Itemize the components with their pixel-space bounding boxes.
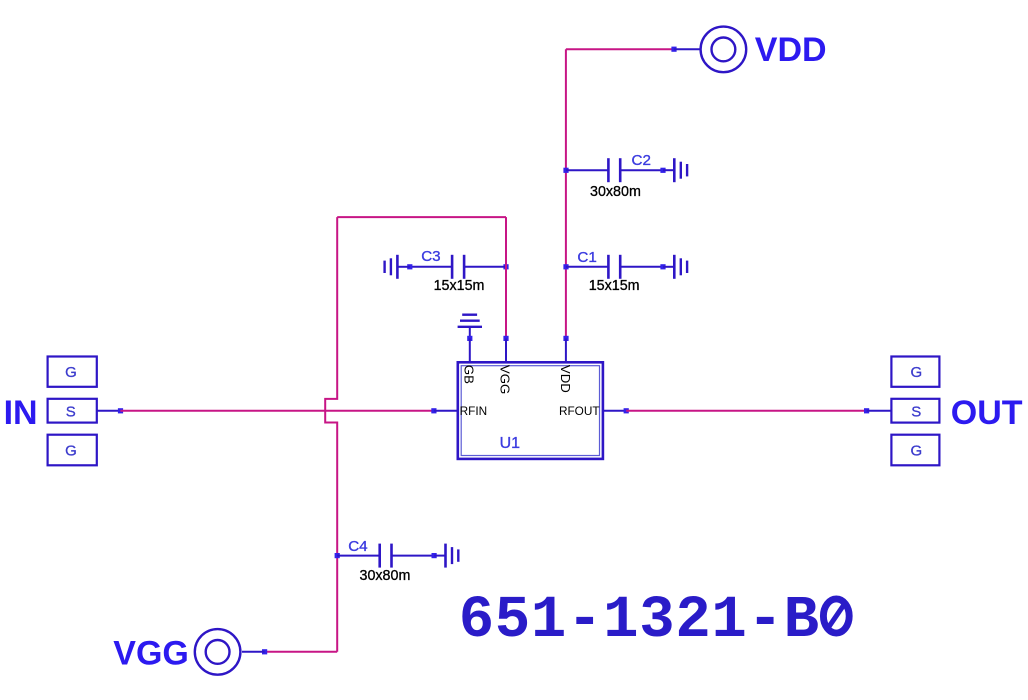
svg-text:C1: C1 xyxy=(577,249,596,266)
amplifier U1 box inner xyxy=(461,366,599,456)
node IN junction xyxy=(118,408,123,413)
C2 ground bar tall xyxy=(673,158,676,182)
C4 ground bar mid xyxy=(451,547,453,564)
node OUT junction xyxy=(864,408,869,413)
svg-text:S: S xyxy=(66,403,76,420)
wire C1 right xyxy=(620,266,663,268)
node C4 right junction xyxy=(432,553,437,558)
port VDD symbol xyxy=(701,27,747,73)
svg-text:RFIN: RFIN xyxy=(460,404,488,418)
C1 ground bar mid xyxy=(680,258,682,275)
wire IN stub blue xyxy=(97,410,121,412)
node C1 left junction xyxy=(563,264,568,269)
wire IN to RFIN magenta xyxy=(120,410,434,412)
capacitor C2 xyxy=(563,152,687,200)
title slashed zero glyph xyxy=(823,599,849,633)
svg-text:15x15m: 15x15m xyxy=(434,278,485,294)
svg-text:VDD: VDD xyxy=(755,31,827,69)
wire C3 left xyxy=(410,266,452,268)
wire C1 left xyxy=(566,266,609,268)
wire VDD net vertical xyxy=(565,49,567,338)
svg-text:U1: U1 xyxy=(500,435,521,452)
svg-text:C4: C4 xyxy=(348,538,367,555)
wire RFOUT to OUT magenta xyxy=(626,410,866,412)
svg-text:VGG: VGG xyxy=(113,634,189,672)
capacitor C1 xyxy=(563,249,687,294)
svg-text:30x80m: 30x80m xyxy=(590,184,641,200)
svg-text:G: G xyxy=(910,442,922,459)
wire VGG bottom horizontal xyxy=(265,651,338,653)
wire RFOUT stub blue xyxy=(603,410,626,412)
node VDD pin junction xyxy=(563,336,568,341)
svg-text:30x80m: 30x80m xyxy=(360,568,411,584)
svg-text:15x15m: 15x15m xyxy=(589,278,640,294)
wire VDD net top horizontal xyxy=(566,48,674,50)
node C4 left junction xyxy=(335,553,340,558)
svg-text:RFOUT: RFOUT xyxy=(559,404,600,418)
node GB pin junction xyxy=(467,336,472,341)
svg-text:C2: C2 xyxy=(632,152,651,169)
wire VGG loop left vertical with crossover jog xyxy=(325,217,337,652)
wire GB pin stub xyxy=(469,338,471,362)
wire C4 to ground xyxy=(434,555,445,557)
port IN box G bottom xyxy=(48,435,97,466)
svg-text:VGG: VGG xyxy=(498,365,513,394)
C1 ground bar tall xyxy=(673,255,676,279)
C2 plate 2 xyxy=(619,158,622,182)
node C2 left junction xyxy=(563,168,568,173)
wire C4 right xyxy=(392,555,435,557)
node C3 left junction xyxy=(407,264,412,269)
amplifier U1 box outer xyxy=(458,362,603,459)
capacitor C3 xyxy=(385,248,509,294)
ground symbol above GB pin xyxy=(458,315,482,339)
node RFOUT junction xyxy=(624,408,629,413)
node C1 right junction xyxy=(660,264,665,269)
svg-text:G: G xyxy=(910,364,922,381)
wire blue stub to VGG port xyxy=(242,651,265,653)
wire VDD pin stub xyxy=(565,338,567,362)
port OUT box S xyxy=(891,399,939,423)
node C3 right junction xyxy=(503,264,508,269)
C1 plate 2 xyxy=(619,255,622,279)
C3 ground bar tall xyxy=(396,255,399,279)
wire C4 left xyxy=(337,555,380,557)
svg-text:IN: IN xyxy=(4,394,38,432)
wire C2 right xyxy=(620,169,663,171)
C4 ground bar tall xyxy=(444,544,447,568)
C3 plate 2 xyxy=(463,255,466,279)
C3 ground bar short xyxy=(383,261,385,273)
wire C2 to ground xyxy=(663,169,674,171)
port IN box S xyxy=(48,399,97,423)
wire RFIN stub blue xyxy=(434,410,458,412)
node C2 right junction xyxy=(660,168,665,173)
C4 plate 2 xyxy=(390,544,393,568)
svg-text:C3: C3 xyxy=(421,248,440,265)
C2 ground bar mid xyxy=(680,162,682,179)
svg-text:G: G xyxy=(65,442,77,459)
wire OUT stub blue xyxy=(867,410,892,412)
C3 plate 1 xyxy=(451,255,454,279)
node VGG pin junction xyxy=(503,336,508,341)
wire blue stub to VDD port xyxy=(674,48,700,50)
svg-text:651-1321-B: 651-1321-B xyxy=(459,587,820,654)
port VGG symbol xyxy=(195,629,241,675)
svg-text:GB: GB xyxy=(462,365,477,384)
svg-text:OUT: OUT xyxy=(951,394,1023,432)
wire C1 to ground xyxy=(663,266,674,268)
port OUT box G top xyxy=(891,357,939,387)
port IN box G top xyxy=(48,357,97,387)
C4 ground bar short xyxy=(457,549,459,561)
wire VGG loop top horizontal xyxy=(337,216,506,218)
node junction at VDD port wire xyxy=(671,47,676,52)
wire C3 to ground xyxy=(397,266,409,268)
C2 plate 1 xyxy=(607,158,610,182)
node RFIN junction xyxy=(431,408,436,413)
svg-text:VDD: VDD xyxy=(558,365,573,393)
wire VGG pin stub xyxy=(505,338,507,362)
C4 plate 1 xyxy=(378,544,381,568)
port OUT box G bottom xyxy=(891,435,939,466)
C2 ground bar short xyxy=(686,164,688,176)
node VGG port junction xyxy=(262,649,267,654)
C1 ground bar short xyxy=(686,261,688,273)
svg-text:S: S xyxy=(911,403,921,420)
svg-text:G: G xyxy=(65,364,77,381)
wire C3 right xyxy=(464,266,506,268)
capacitor C4 xyxy=(335,538,459,584)
C1 plate 1 xyxy=(607,255,610,279)
wire C2 left xyxy=(566,169,609,171)
wire VGG loop right vertical xyxy=(505,217,507,338)
C3 ground bar mid xyxy=(390,258,392,275)
